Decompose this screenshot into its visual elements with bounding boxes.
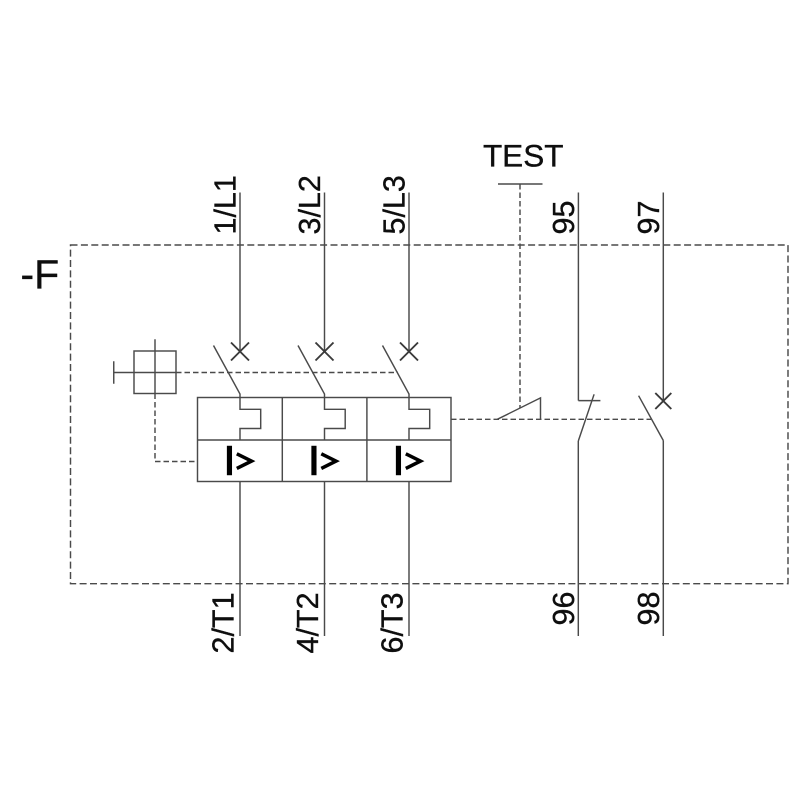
pole 3 lever and latch notch [383,346,430,441]
wire 97 top [662,193,664,402]
trip unit box [198,398,452,482]
wire 95 top [577,193,579,401]
wire 98 bottom [662,441,664,637]
TEST terminal bar [498,183,543,185]
breaker contact X pole 2 [316,343,334,361]
pole 1 lever and latch notch [214,346,261,441]
actuator end tick [113,361,115,384]
trip unit divider pole1/2 [281,398,283,482]
actuator cross horizontal [114,372,176,374]
wire 96 bottom [577,441,579,636]
wire 6/T3 bottom [408,482,410,637]
svg-text:97: 97 [632,201,666,235]
overload symbol I> pole 2 [312,447,336,475]
breaker contact X pole 1 [231,343,249,361]
dashed link actuator down [154,394,156,462]
aux NC contact fixed bar 95 [578,400,600,402]
svg-text:2/T1: 2/T1 [207,592,241,653]
actuator cross vertical [154,339,156,393]
svg-text:98: 98 [632,592,666,626]
aux contact X 97 [655,393,671,409]
aux NO contact lever 97-98 [639,396,664,441]
dashed test linkage vertical [519,184,521,408]
test actuator triangle [497,398,540,419]
svg-text:95: 95 [547,201,581,235]
wire 3/L2 top [324,193,326,352]
dashed link actuator to pole levers [176,372,398,374]
wire 2/T1 bottom [239,482,241,637]
svg-text:-F: -F [21,252,60,298]
aux NC contact lever 95-96 [578,394,594,441]
svg-text:5/L3: 5/L3 [378,175,412,234]
wire 1/L1 top [239,193,241,352]
svg-text:3/L2: 3/L2 [293,175,327,234]
wire 4/T2 bottom [324,482,326,637]
svg-text:4/T2: 4/T2 [291,592,325,653]
pole 2 lever and latch notch [298,346,345,441]
overload symbol I> pole 1 [228,447,252,475]
trip unit middle divider [198,439,452,441]
enclosure dashed border [71,245,789,584]
svg-text:6/T3: 6/T3 [376,592,410,653]
magnetic actuator square [134,351,176,394]
trip unit divider pole2/3 [366,398,368,482]
svg-text:TEST: TEST [483,138,564,174]
overload symbol I> pole 3 [397,447,421,475]
svg-text:96: 96 [547,592,581,626]
dashed trip linkage horizontal [451,418,651,420]
dashed link into trip box [155,461,198,463]
breaker contact X pole 3 [400,343,418,361]
wire 5/L3 top [408,193,410,352]
svg-text:1/L1: 1/L1 [209,175,243,234]
